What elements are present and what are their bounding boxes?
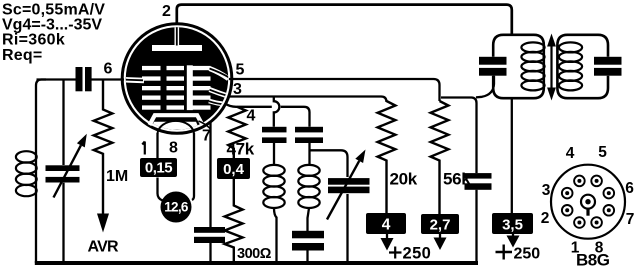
capacitor IFT secondary — [594, 57, 622, 65]
socket diagram B8G octal — [541, 144, 635, 270]
svg-text:20k: 20k — [390, 170, 418, 189]
heater — [158, 121, 195, 135]
wire heater left pin — [158, 133, 163, 201]
IF transformer secondary box — [557, 35, 608, 98]
socket pin 7 — [604, 205, 615, 216]
wire — [308, 143, 310, 165]
wire — [308, 208, 310, 231]
svg-text:B8G: B8G — [576, 251, 610, 270]
svg-text:4: 4 — [382, 217, 391, 234]
IF transformer primary box — [493, 35, 544, 98]
svg-text:7: 7 — [626, 211, 635, 228]
wire anode supply — [511, 98, 513, 213]
wire cathode to pin 7 — [199, 121, 211, 129]
arrow to +250 — [439, 234, 441, 239]
tube envelope — [122, 24, 232, 134]
label circle 12,6 heater voltage — [161, 192, 192, 223]
wire grid input (pin 6) — [37, 78, 125, 80]
svg-text:3,5: 3,5 — [502, 217, 523, 234]
wire pin 4 oscillator grid — [225, 104, 310, 127]
inductor oscillator branch 2 — [298, 165, 319, 208]
pin label 1 — [142, 142, 145, 155]
capacitor branch 2 lower — [292, 231, 324, 239]
svg-text:6: 6 — [104, 60, 113, 77]
label box 0,15 heater current — [140, 158, 177, 177]
socket pin 1 — [574, 217, 585, 228]
grid comb right column — [187, 65, 211, 110]
tube bottom white zone — [151, 122, 200, 130]
label box 2,7 — [421, 214, 459, 234]
svg-text:0,4: 0,4 — [223, 161, 245, 178]
arrow to +250 — [512, 234, 514, 237]
socket pin 2 — [562, 205, 573, 216]
capacitor screen bypass — [465, 173, 492, 179]
arrow to +250 — [386, 234, 388, 240]
wire from IFT cap to screen node — [476, 76, 494, 98]
capacitor oscillator branch 2 — [295, 127, 323, 133]
coupling arrow IFT — [550, 44, 552, 90]
wire — [306, 251, 308, 264]
wire — [475, 190, 477, 263]
cathode — [150, 115, 203, 125]
capacitor oscillator branch 1 — [262, 127, 287, 133]
tube inner disc — [126, 27, 228, 129]
variable capacitor tuning — [46, 165, 80, 171]
svg-text:4: 4 — [247, 108, 256, 125]
capacitor cathode bypass — [194, 227, 225, 233]
text +250 right — [496, 245, 513, 260]
wire — [274, 208, 277, 263]
svg-text:2: 2 — [541, 210, 550, 227]
inductor oscillator branch 1 — [263, 165, 284, 208]
anode bar — [152, 45, 202, 51]
grid dashes left column — [142, 66, 161, 110]
wire second rail — [62, 80, 64, 264]
wire pin 3 — [228, 97, 387, 103]
wire screen node to bypass — [441, 98, 477, 174]
wire pin 7 cathode — [209, 122, 211, 263]
wire pin2 to top rail and IF transformer — [177, 5, 512, 36]
socket pin 8 — [591, 217, 602, 228]
variable capacitor oscillator — [328, 178, 370, 185]
resistor 47k — [228, 107, 246, 158]
wire pin 5 screen — [229, 79, 440, 101]
socket pin 3 — [562, 188, 573, 199]
internal lead channels — [123, 24, 232, 105]
arrow of oscillator variable capacitor — [327, 161, 359, 220]
wire left rail — [36, 80, 46, 264]
inductor IFT secondary — [559, 42, 582, 90]
wire branch 1 with hop over pin4 wire — [274, 98, 280, 127]
capacitor IFT primary — [479, 57, 507, 65]
center post — [581, 195, 595, 209]
resistor 300 ohm — [225, 179, 243, 263]
bottom rail ground — [35, 261, 478, 265]
socket pin 6 — [604, 188, 615, 199]
svg-text:6: 6 — [625, 180, 634, 197]
wire — [346, 194, 348, 263]
svg-text:4: 4 — [566, 145, 575, 162]
socket pin 5 — [591, 176, 602, 187]
svg-text:2,7: 2,7 — [430, 217, 451, 234]
svg-text:12,6: 12,6 — [164, 200, 189, 215]
inductor IFT primary — [521, 42, 544, 90]
wire heater right pin — [192, 133, 194, 200]
svg-text:250: 250 — [403, 245, 432, 263]
label box 3,5 — [492, 213, 533, 234]
grid dashes middle column — [167, 66, 185, 110]
svg-text:3: 3 — [542, 182, 551, 199]
socket pin 4 — [574, 176, 585, 187]
svg-text:5: 5 — [236, 62, 245, 79]
arrow AVR — [97, 214, 109, 233]
svg-text:47k: 47k — [227, 140, 255, 159]
text +250 middle — [389, 247, 402, 259]
label box 0,4 — [217, 158, 250, 179]
resistor 1M — [94, 80, 113, 214]
inductor antenna coil — [16, 151, 37, 196]
svg-text:300Ω: 300Ω — [237, 246, 272, 262]
svg-text:AVR: AVR — [88, 239, 119, 256]
wire — [273, 143, 275, 165]
svg-text:2: 2 — [162, 3, 171, 20]
tube U1 heptode — [122, 24, 232, 135]
svg-text:Req=: Req= — [2, 47, 42, 64]
svg-text:8: 8 — [169, 140, 178, 157]
resistor 20k — [378, 101, 396, 213]
svg-text:0,15: 0,15 — [145, 160, 172, 177]
resistor 56k — [431, 101, 449, 214]
label box 4 — [366, 213, 406, 234]
arrow of variable capacitor — [54, 145, 81, 197]
svg-text:1M: 1M — [106, 168, 128, 185]
wire to oscillator padder — [310, 150, 348, 177]
svg-text:5: 5 — [598, 144, 607, 161]
socket outline — [551, 165, 625, 239]
capacitor input coupling — [76, 67, 83, 91]
svg-text:250: 250 — [514, 246, 541, 263]
